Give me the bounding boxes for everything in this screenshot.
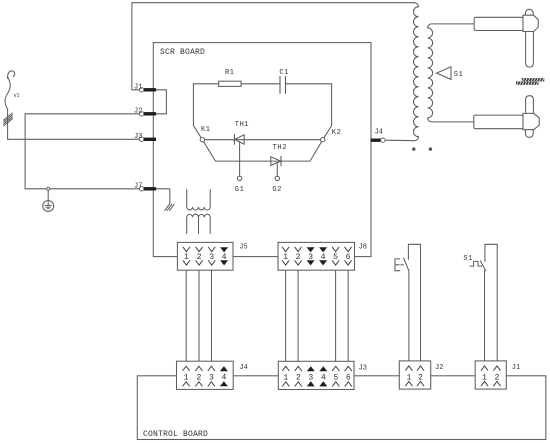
- svg-text:J4: J4: [375, 129, 383, 137]
- svg-text:J5: J5: [239, 244, 247, 252]
- svg-text:3: 3: [308, 253, 313, 262]
- svg-text:3: 3: [209, 253, 214, 262]
- svg-text:CONTROL BOARD: CONTROL BOARD: [143, 430, 208, 439]
- svg-text:J7: J7: [134, 182, 142, 190]
- svg-text:J1: J1: [512, 364, 520, 372]
- svg-text:6: 6: [346, 374, 351, 383]
- svg-text:4: 4: [222, 253, 227, 262]
- svg-text:J3: J3: [134, 133, 142, 141]
- svg-text:6: 6: [346, 253, 351, 262]
- svg-text:3: 3: [308, 374, 313, 383]
- svg-text:1: 1: [283, 374, 288, 383]
- svg-text:G2: G2: [272, 186, 282, 194]
- svg-text:R1: R1: [225, 69, 235, 77]
- svg-text:1: 1: [482, 373, 487, 382]
- svg-text:J2: J2: [134, 107, 142, 115]
- svg-text:TH1: TH1: [235, 121, 249, 129]
- svg-text:J8: J8: [359, 244, 367, 252]
- svg-text:2: 2: [196, 374, 201, 383]
- svg-text:J4: J4: [240, 364, 248, 372]
- svg-text:4: 4: [321, 374, 326, 383]
- svg-text:5: 5: [333, 253, 338, 262]
- svg-text:2: 2: [296, 253, 301, 262]
- svg-text:2: 2: [495, 373, 500, 382]
- svg-text:4: 4: [221, 374, 226, 383]
- svg-text:VI: VI: [14, 93, 20, 99]
- svg-text:3: 3: [209, 374, 214, 383]
- svg-text:J1: J1: [134, 83, 142, 91]
- svg-text:1: 1: [184, 253, 189, 262]
- svg-text:1: 1: [184, 374, 189, 383]
- svg-text:2: 2: [296, 374, 301, 383]
- svg-text:1: 1: [406, 373, 411, 382]
- svg-text:2: 2: [197, 253, 202, 262]
- svg-text:1: 1: [283, 253, 288, 262]
- svg-text:J2: J2: [435, 364, 443, 372]
- svg-text:S1: S1: [454, 71, 464, 79]
- svg-text:4: 4: [321, 253, 326, 262]
- svg-text:G1: G1: [235, 186, 245, 194]
- svg-text:SCR BOARD: SCR BOARD: [160, 48, 205, 57]
- svg-text:K2: K2: [332, 129, 342, 137]
- svg-text:S1: S1: [463, 255, 473, 263]
- svg-text:TH2: TH2: [273, 144, 287, 152]
- svg-text:2: 2: [418, 373, 423, 382]
- svg-text:J3: J3: [359, 364, 367, 372]
- svg-text:5: 5: [333, 374, 338, 383]
- svg-text:K1: K1: [201, 126, 211, 134]
- svg-text:C1: C1: [279, 69, 289, 77]
